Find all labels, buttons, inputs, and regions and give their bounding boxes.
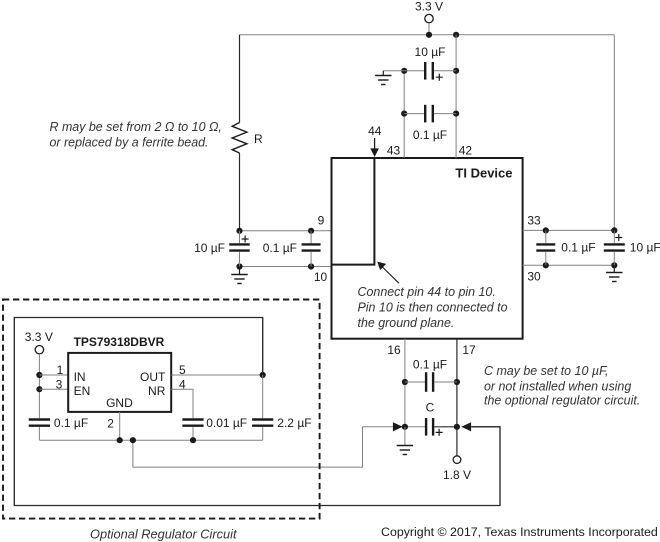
junction dot pin10 row at 0.1uF bbox=[308, 263, 314, 269]
arrow wire into C right node bbox=[461, 422, 500, 431]
value label 0.1 uF regulator bbox=[54, 416, 88, 430]
capacitor 0.1uF top bbox=[404, 105, 456, 123]
capacitor 2.2uF regulator bbox=[252, 375, 273, 440]
pin number 30 bbox=[527, 269, 541, 283]
pin number 44 bbox=[368, 124, 382, 138]
wire pin 2 GND bbox=[119, 412, 121, 440]
node 3.3V regulator label bbox=[25, 330, 53, 344]
junction dot bus takeoff bbox=[130, 437, 136, 443]
ground top left of cap chain bbox=[375, 71, 404, 85]
junction dot pin33 row at 10uF bbox=[611, 227, 617, 233]
pin number 17 bbox=[462, 343, 476, 357]
label TPS79318DBVR bbox=[74, 335, 165, 349]
svg-text:GND: GND bbox=[106, 396, 133, 410]
wire from resistor to pin 9 row bbox=[239, 153, 241, 231]
pin number 4 bbox=[179, 377, 186, 391]
wire pin 42 vertical from rail bbox=[455, 35, 457, 158]
svg-text:Pin 10 is then connected to: Pin 10 is then connected to bbox=[358, 301, 508, 315]
pin number 16 bbox=[387, 343, 401, 357]
svg-text:R: R bbox=[254, 132, 263, 146]
pin number 10 bbox=[314, 270, 328, 284]
junction dot pin9 row at R branch bbox=[236, 228, 242, 234]
wire from 3.3V terminal to rail bbox=[428, 23, 430, 35]
node label 1.8 V bbox=[443, 468, 471, 482]
value label 0.1 uF right bbox=[561, 240, 595, 254]
svg-text:Copyright © 2017, Texas Instru: Copyright © 2017, Texas Instruments Inco… bbox=[381, 525, 658, 539]
svg-text:C: C bbox=[426, 401, 435, 415]
wire pin 30 row bbox=[523, 264, 615, 266]
annotation arrow to pin44-pin10 corner bbox=[377, 262, 399, 284]
value label 10 uF left bbox=[194, 241, 225, 255]
svg-text:10 µF: 10 µF bbox=[415, 45, 446, 59]
svg-text:10 µF: 10 µF bbox=[630, 240, 660, 254]
terminal circle regulator 3.3V bbox=[35, 346, 43, 354]
svg-text:1: 1 bbox=[57, 363, 64, 377]
svg-text:or replaced by a ferrite bead.: or replaced by a ferrite bead. bbox=[50, 135, 209, 149]
capacitor 0.1uF regulator bbox=[29, 420, 50, 441]
svg-text:0.01 µF: 0.01 µF bbox=[206, 416, 247, 430]
wire internal pin44 to pin10 bbox=[332, 158, 375, 265]
svg-text:10: 10 bbox=[314, 270, 328, 284]
capacitor 0.01uF regulator bbox=[182, 420, 203, 441]
pin number 3 bbox=[56, 377, 63, 391]
note connect pin 44 bbox=[358, 285, 508, 330]
ground below C left node bbox=[397, 427, 413, 455]
svg-text:the ground plane.: the ground plane. bbox=[358, 316, 455, 330]
junction dot pin17 at 0.1uF bbox=[454, 379, 460, 385]
junction dot pin30 row at 10uF bbox=[611, 262, 617, 268]
wire left branch from rail to resistor bbox=[239, 35, 241, 123]
svg-text:2.2 µF: 2.2 µF bbox=[277, 416, 311, 430]
svg-text:2: 2 bbox=[107, 417, 114, 431]
ground right below 10uF bbox=[606, 265, 622, 281]
junction dot bus pin2 bbox=[117, 437, 123, 443]
junction dot cap chain right bottom bbox=[453, 111, 459, 117]
junction dot C left node bbox=[402, 424, 408, 430]
capacitor 10uF left polarized bbox=[229, 231, 249, 267]
pin name NR bbox=[148, 384, 166, 398]
junction dot reg input pin1 bbox=[36, 372, 42, 378]
pin number 5 bbox=[179, 363, 186, 377]
svg-text:NR: NR bbox=[148, 384, 166, 398]
wire pin 33 row bbox=[523, 229, 615, 231]
value label 10 uF top bbox=[415, 45, 446, 59]
svg-text:16: 16 bbox=[387, 343, 401, 357]
svg-text:3.3 V: 3.3 V bbox=[415, 0, 443, 14]
svg-text:0.1 µF: 0.1 µF bbox=[413, 128, 447, 142]
junction dot cap chain right top bbox=[453, 68, 459, 74]
svg-text:3.3 V: 3.3 V bbox=[25, 330, 53, 344]
svg-text:or not installed when using: or not installed when using bbox=[484, 379, 631, 393]
wire pin 43 vertical to cap chain bbox=[403, 71, 405, 158]
svg-text:TPS79318DBVR: TPS79318DBVR bbox=[74, 335, 165, 349]
value label R bbox=[254, 132, 263, 146]
svg-text:Connect pin 44 to pin 10.: Connect pin 44 to pin 10. bbox=[358, 285, 496, 299]
svg-text:33: 33 bbox=[527, 214, 541, 228]
junction dot pin33 row at 0.1uF bbox=[543, 227, 549, 233]
value label 0.1 uF top bbox=[413, 128, 447, 142]
wire regulator input vertical bbox=[38, 354, 40, 418]
svg-text:44: 44 bbox=[368, 124, 382, 138]
node 3.3V top supply label bbox=[415, 0, 443, 14]
svg-text:42: 42 bbox=[459, 143, 473, 157]
wire pin 5 OUT bbox=[171, 374, 263, 376]
svg-text:0.1 µF: 0.1 µF bbox=[413, 357, 447, 371]
svg-text:the optional regulator circuit: the optional regulator circuit. bbox=[484, 394, 640, 408]
pin number 33 bbox=[527, 214, 541, 228]
wire pin 4 NR to 0.01uF bbox=[171, 389, 193, 418]
svg-text:C may be set to 10 µF,: C may be set to 10 µF, bbox=[484, 364, 608, 378]
svg-text:0.1 µF: 0.1 µF bbox=[54, 416, 88, 430]
pin number 2 bbox=[107, 417, 114, 431]
value label 10 uF right bbox=[630, 240, 660, 254]
wire right rail drop bbox=[613, 35, 615, 231]
op-amp U1 TI Device box bbox=[332, 158, 523, 339]
wire pin 44 arrow into box bbox=[370, 138, 379, 157]
pin number 1 bbox=[57, 363, 64, 377]
svg-text:OUT: OUT bbox=[140, 370, 166, 384]
svg-text:1.8 V: 1.8 V bbox=[443, 468, 471, 482]
pin number 42 bbox=[459, 143, 473, 157]
wire pin 16 vertical bbox=[404, 339, 406, 427]
label copyright bbox=[381, 525, 658, 539]
pin name IN bbox=[74, 370, 86, 384]
note C may be set bbox=[484, 364, 640, 407]
svg-text:Optional Regulator Circuit: Optional Regulator Circuit bbox=[90, 527, 237, 542]
junction dot cap chain left top bbox=[401, 68, 407, 74]
svg-text:10 µF: 10 µF bbox=[194, 241, 225, 255]
wire pin 1 bbox=[39, 374, 68, 376]
capacitor 0.1uF left bbox=[302, 231, 321, 267]
junction dot C right node bbox=[454, 424, 460, 430]
wire ground return from regulator bus to pin 16 node bbox=[133, 427, 363, 467]
label TI Device bbox=[455, 165, 512, 180]
value label C bbox=[426, 401, 435, 415]
svg-text:TI Device: TI Device bbox=[455, 165, 512, 180]
value label 0.1 uF bottom bbox=[413, 357, 447, 371]
junction dot pin10 row at ground bbox=[236, 263, 242, 269]
junction dot rail at x456 bbox=[453, 32, 459, 38]
note R may be set bbox=[50, 120, 222, 149]
junction dot rail at x429 bbox=[426, 32, 432, 38]
value label 0.1 uF left bbox=[263, 241, 297, 255]
arrow wire into C left node bbox=[363, 422, 403, 431]
capacitor 0.1uF bottom bbox=[405, 372, 457, 392]
junction dot reg input pin3 bbox=[36, 386, 42, 392]
junction dot pin9 row at 0.1uF bbox=[308, 228, 314, 234]
terminal circle 3.3V bbox=[425, 14, 433, 22]
value label 2.2 uF bbox=[277, 416, 311, 430]
pin number 43 bbox=[387, 143, 401, 157]
pin number 9 bbox=[318, 214, 325, 228]
pin name OUT bbox=[140, 370, 166, 384]
wire pin 10 row bbox=[240, 266, 332, 268]
pin name GND bbox=[106, 396, 133, 410]
terminal circle 1.8V bbox=[453, 456, 461, 464]
value label 0.01 uF bbox=[206, 416, 247, 430]
capacitor 10uF top polarized bbox=[404, 62, 456, 81]
junction dot cap chain left bottom bbox=[401, 111, 407, 117]
wire pin 3 bbox=[39, 388, 68, 390]
svg-text:0.1 µF: 0.1 µF bbox=[561, 240, 595, 254]
capacitor C polarized bbox=[405, 418, 457, 436]
label Optional Regulator Circuit bbox=[90, 527, 237, 542]
svg-text:9: 9 bbox=[318, 214, 325, 228]
capacitor 0.1uF right bbox=[536, 230, 555, 265]
svg-text:17: 17 bbox=[462, 343, 476, 357]
wire top power rail bbox=[240, 34, 615, 36]
svg-text:R may be set from 2 Ω to 10 Ω,: R may be set from 2 Ω to 10 Ω, bbox=[50, 120, 222, 134]
capacitor 10uF right polarized bbox=[604, 230, 625, 265]
svg-text:30: 30 bbox=[527, 269, 541, 283]
junction dot bus 0.01uF bbox=[190, 437, 196, 443]
svg-text:43: 43 bbox=[387, 143, 401, 157]
svg-text:IN: IN bbox=[74, 370, 86, 384]
svg-text:0.1 µF: 0.1 µF bbox=[263, 241, 297, 255]
resistor R bbox=[232, 123, 247, 154]
wire regulator ground bus bbox=[39, 439, 262, 441]
junction dot pin16 at 0.1uF bbox=[402, 379, 408, 385]
junction dot OUT at 2.2uF bbox=[260, 372, 266, 378]
svg-text:3: 3 bbox=[56, 377, 63, 391]
svg-text:EN: EN bbox=[74, 384, 91, 398]
junction dot pin30 row at 0.1uF bbox=[543, 262, 549, 268]
dashed box optional regulator circuit bbox=[3, 300, 320, 519]
wire pin 17 vertical bbox=[456, 339, 458, 456]
ground left below 10uF bbox=[231, 267, 247, 284]
pin name EN bbox=[74, 384, 91, 398]
wire pin 9 row bbox=[240, 230, 332, 232]
wire 1.8V loop from regulator output to pin 17 node bbox=[14, 318, 500, 506]
regulator U2 TPS79318DBVR box bbox=[68, 353, 171, 412]
